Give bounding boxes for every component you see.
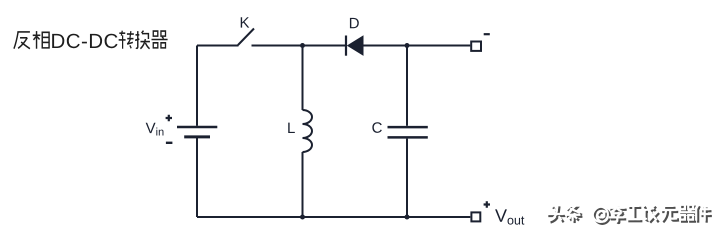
wire: inductor rail upper: [302, 46, 304, 111]
wire: diode to top-right terminal: [363, 45, 470, 47]
diode D cathode bar: [345, 36, 347, 56]
wire: capacitor rail upper: [406, 46, 408, 126]
wire: capacitor rail lower: [406, 139, 408, 217]
terminal square top-right: [471, 42, 481, 51]
capacitor C plates: [388, 126, 428, 129]
junction: bottom inductor node: [300, 215, 305, 220]
label C: [372, 122, 382, 133]
junction: top capacitor node: [405, 43, 410, 48]
wire: top-left from left rail to switch: [197, 45, 239, 47]
terminal square bottom-right: [471, 212, 480, 221]
plus label at bottom-right terminal: [484, 201, 490, 207]
wire: switch to diode: [252, 45, 346, 47]
watermark 头条 @李工谈元器件 : shadow layer: [548, 206, 712, 223]
label Vin: [146, 123, 164, 136]
title 反相DC-DC转换器: [14, 31, 49, 49]
label Vout: [495, 209, 524, 224]
circuit ink: [197, 29, 470, 218]
switch K lever: [238, 29, 254, 46]
label L: [288, 123, 295, 133]
label D: [350, 18, 359, 28]
wire: left rail lower (battery bottom to bottom wire): [196, 138, 198, 217]
inductor L coil: [303, 110, 313, 152]
junction: top inductor node: [300, 43, 305, 48]
battery minus label: [166, 142, 173, 144]
wire: bottom rail: [197, 216, 470, 218]
battery Vin plates: [177, 126, 217, 129]
diode D triangle: [348, 36, 363, 55]
watermark white layer: [546, 204, 710, 221]
label K: [241, 17, 250, 27]
wire: left rail upper (to battery top plate): [196, 46, 198, 126]
junction: bottom capacitor node: [405, 215, 410, 220]
minus label at top-right terminal: [484, 33, 490, 35]
wire: inductor rail lower: [302, 152, 304, 217]
battery plus label: [166, 115, 172, 121]
